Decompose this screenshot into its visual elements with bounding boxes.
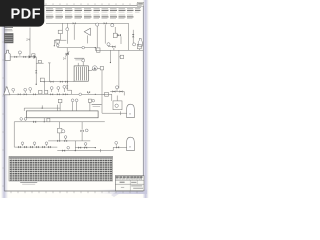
junction dot L2 x95 [95,94,96,95]
instrument circle right [133,43,136,46]
instrument L2-3 [29,88,32,93]
instruments on pipe left [20,118,27,121]
riser x75 [74,141,76,151]
control box cluster below header [113,27,121,44]
strainer cluster on L1 [29,54,35,59]
stub with fitting at y63 [36,60,43,63]
cyclone triangle [84,28,90,43]
hopper T-B [127,137,135,151]
instrument L2-4 [50,87,53,92]
pipe M1 [40,81,74,83]
instrument circle on L2 x80 [79,93,82,96]
vertical run x67 [66,48,68,91]
instrument on y147 [84,143,87,147]
check valve L1-c [34,55,37,59]
hopper T-A [127,104,135,118]
frame top border [4,4,143,6]
heat exchanger E-1 [74,62,88,81]
valve M1-c [65,81,68,83]
title block row2 text [120,181,137,183]
frame bottom tick marks [11,191,137,193]
bottom manifold [14,146,57,148]
line y141 [48,140,90,142]
left page-edge shading [1,0,8,198]
valve L2-d [50,93,53,95]
control valve with actuator [65,51,69,56]
line y147 right [75,146,96,148]
pipe M2 [58,47,96,49]
valve L2-e [57,93,60,95]
valve L2-b [24,93,27,95]
pipe L2 [10,93,112,95]
pump discharge line [97,67,103,114]
valve L2-f cluster [63,86,66,96]
valve L1-a [14,56,17,58]
fitting cluster x88 [87,91,90,94]
manifold instruments [21,142,48,146]
valve L2-c [33,93,36,95]
fitting box above vessel left [58,99,62,111]
valves on y141 [57,140,67,142]
frame bottom border [4,190,143,192]
fitting box x104 [103,92,108,96]
pipe top header [46,22,129,24]
caption under table [20,183,37,185]
pipe under vessel [14,121,105,123]
fitting box on R1 left [96,48,100,52]
title block grid [115,176,144,191]
pipe riser from badge area x30 [29,28,31,58]
bottom line end riser to hopper pipe [112,147,114,150]
tick on bottom line [99,149,101,152]
bottom-right page-edge shading [92,190,147,197]
cluster right of vessel [81,122,89,141]
instrument circle at x97 on header [96,23,99,48]
label 24 on riser [26,38,30,42]
left loop vertical [13,122,15,147]
feed line above vessel [24,105,60,111]
label text above E-1 [74,58,84,60]
vessel V-1 bottle [5,50,10,60]
junction dot L2 x67 [67,94,68,95]
instrument above E-1 [82,59,85,62]
vessel top stub x57 [56,105,58,111]
instrument L2-5 [57,87,60,92]
fitting box on M1 [40,78,44,82]
pump P-1 [88,66,97,71]
instrument L2-2 [24,88,27,93]
svg-text:24: 24 [26,38,30,42]
cluster above hopper line [110,86,124,96]
instrument circle at x112 top [111,23,114,27]
pump circle on M2 [82,46,85,49]
elbow x67 to L2 [67,90,71,94]
title block header stamps [116,176,143,179]
instrument pair above vessel [71,99,78,111]
fitting box L2 second [45,90,48,94]
instrument box cluster B1 [54,23,67,46]
svg-text:PDF: PDF [11,6,41,22]
link M2 to R1 [95,47,96,50]
cluster C2 box and riser [56,40,60,48]
pipe to hopper A [102,111,127,115]
recycle box with instrument [113,96,122,110]
vertical drop x110 [110,50,111,63]
long bottom line [57,150,113,151]
vessel V-2 cone flask [4,87,10,95]
riser x49 [48,63,51,82]
fitting cluster above vessel right [88,99,94,111]
fitting box right near frame [137,44,141,50]
riser with dot x44 [44,118,45,123]
instrument on y141 [64,136,67,140]
valve on header at x105 [104,22,107,43]
title block row3 text [121,186,143,188]
instrument above hopper B pipe [115,141,118,145]
valve on pipe x34 [33,121,36,123]
frame right border [142,5,144,191]
instrument on L1 [18,51,21,56]
PDF badge [0,0,44,27]
instrument L2-1 [12,88,15,93]
frame left tick marks [2,24,4,186]
sheet number box top-right [137,2,143,6]
vertical valve run near x133 [132,30,134,44]
fitting box L2 [39,90,42,94]
vertical run x119 [118,50,120,88]
valve M1-a [51,81,54,83]
valve M1-b [60,81,63,83]
label 24 mid [63,57,66,61]
instrument circle I1 [66,23,69,44]
instrument above R1 [107,43,110,46]
manifold valves [18,146,51,148]
label block right of vessel top [92,105,102,107]
notes row 2 text blocks [46,15,134,19]
paper sheet background [0,0,149,198]
riser connecting M1 to L2 [44,81,45,90]
elbow riser from L1 [35,57,37,85]
note block A left margin [5,28,14,31]
instrument on bottom line [67,146,70,149]
valve on header at x74 [73,22,76,40]
pipe riser right end of header [128,23,130,50]
frame top tick marks [11,3,137,5]
pipe L1 [10,56,36,58]
pipe R1 [95,49,143,51]
fitting box on x119 run [119,55,124,58]
frame left border [3,5,5,191]
long vessel D-1 [26,111,98,118]
valve on bottom line [62,149,65,151]
pipe to hopper B [113,146,127,148]
notes row 1 text blocks [46,9,141,13]
mid cluster boxes [58,122,65,141]
valve L1-b [23,56,26,58]
fitting box x47 [47,118,50,122]
right page-edge shading [143,0,149,198]
drop to recycle box [111,94,113,101]
note block B dark table left margin [4,33,13,43]
valve L2-a [18,93,21,95]
valve above R1 with stem [109,46,116,51]
equipment list table [9,156,113,181]
small flask near right frame [138,38,142,46]
notes band top rule [46,6,142,8]
